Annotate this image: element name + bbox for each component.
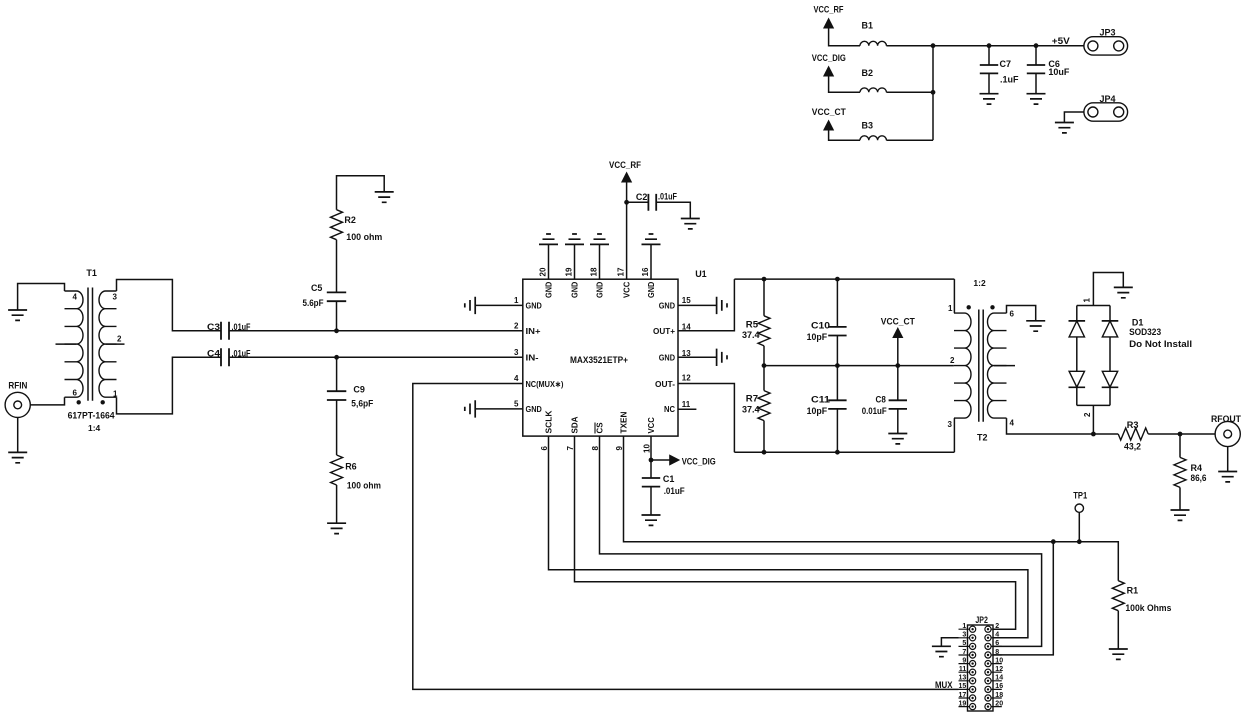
- capacitor C5: [327, 292, 346, 301]
- svg-text:1: 1: [514, 296, 519, 305]
- svg-text:18: 18: [590, 267, 599, 276]
- ground under R6: [327, 523, 346, 533]
- ground under RFOUT: [1218, 472, 1237, 482]
- connector JP4: [1084, 103, 1128, 121]
- testpoint TP1 circle: [1075, 504, 1083, 512]
- ground at R2: [375, 192, 394, 202]
- svg-text:T2: T2: [977, 433, 988, 443]
- wire R5 top lead: [763, 279, 765, 316]
- wire T2 pin 3 to bottom rail: [953, 418, 955, 452]
- wire R4 to ground: [1179, 487, 1181, 510]
- svg-text:6: 6: [73, 389, 78, 398]
- pin 7 wire SDA to JP2 pin 2: [575, 436, 1016, 629]
- pin 8 wire CS to JP2 pin 6: [600, 436, 1042, 646]
- svg-text:GND: GND: [570, 282, 580, 298]
- transformer T1 secondary winding: [99, 291, 117, 397]
- svg-text:IN+: IN+: [526, 326, 541, 336]
- phase dot T1 left: [77, 400, 81, 404]
- ground at C2: [681, 219, 700, 229]
- svg-text:2: 2: [995, 623, 999, 630]
- pin 1 wire GND of U1: [475, 304, 523, 306]
- inverted ground pin 19: [565, 234, 584, 244]
- svg-text:3: 3: [514, 348, 519, 357]
- svg-text:C5: C5: [311, 283, 322, 293]
- ground at U1 pin 15: [717, 297, 727, 314]
- wire C3 to U1 pin2: [229, 330, 523, 332]
- svg-text:617PT-1664: 617PT-1664: [68, 411, 115, 421]
- ground at T1 pin 4: [8, 310, 27, 320]
- wire D1 bottom rail: [1077, 404, 1110, 406]
- inductor B2: [860, 88, 886, 92]
- wire C10 bottom lead: [836, 336, 838, 366]
- svg-text:JP2: JP2: [975, 615, 988, 625]
- junction C5/C3 line: [334, 328, 339, 333]
- capacitor C10: [828, 327, 846, 336]
- svg-text:17: 17: [959, 692, 967, 699]
- wire JP4 to ground: [1064, 112, 1084, 123]
- svg-text:GND: GND: [595, 282, 605, 298]
- svg-text:T1: T1: [86, 268, 97, 278]
- svg-text:37.4: 37.4: [742, 330, 760, 340]
- svg-text:TP1: TP1: [1073, 491, 1087, 501]
- pin 19 wire GND top: [574, 244, 576, 279]
- diode D1 lower right: [1102, 371, 1117, 387]
- svg-text:SOD323: SOD323: [1129, 327, 1161, 337]
- svg-text:C3: C3: [207, 322, 220, 332]
- power arrow VCC_DIG at pin 10: [669, 454, 680, 465]
- diode D1 lower left: [1069, 371, 1084, 387]
- svg-text:10uF: 10uF: [1048, 67, 1070, 77]
- capacitor C4: [221, 348, 229, 366]
- wire T1 pin4 to ground: [18, 284, 65, 311]
- svg-text:20: 20: [995, 700, 1003, 707]
- svg-text:4: 4: [73, 293, 78, 302]
- svg-text:B2: B2: [862, 68, 874, 78]
- svg-text:16: 16: [995, 683, 1003, 690]
- wire bottom rail OUT-: [734, 451, 954, 453]
- pin 20 wire GND top: [548, 244, 550, 279]
- svg-text:MAX3521ETP+: MAX3521ETP+: [570, 355, 628, 365]
- svg-text:MUX: MUX: [935, 680, 953, 690]
- svg-text:12: 12: [682, 374, 691, 383]
- svg-text:Do Not Install: Do Not Install: [1129, 339, 1192, 349]
- svg-text:C4: C4: [207, 348, 220, 358]
- svg-text:VCC: VCC: [646, 417, 656, 433]
- svg-text:20: 20: [539, 267, 548, 276]
- phase dot T1 right: [101, 400, 105, 404]
- wire RFOUT to ground: [1227, 447, 1229, 472]
- svg-text:86,6: 86,6: [1191, 473, 1207, 483]
- ground at U1 pin 5: [465, 400, 475, 417]
- junction C10/C11 middle: [835, 363, 840, 368]
- pin 12 wire OUT- of U1 to matching network: [678, 384, 734, 453]
- svg-text:.01uF: .01uF: [664, 486, 685, 496]
- wire R7 bottom lead: [763, 421, 765, 453]
- ground under RFIN: [8, 452, 27, 462]
- svg-text:VCC_CT: VCC_CT: [812, 107, 846, 117]
- svg-text:3: 3: [113, 293, 118, 302]
- wire C11 top lead: [836, 366, 838, 401]
- junction C6 on +5V rail: [1034, 43, 1039, 48]
- svg-text:1:2: 1:2: [973, 278, 986, 288]
- transformer T1 primary center tap stub: [56, 343, 77, 345]
- junction TP1: [1077, 539, 1082, 544]
- svg-text:100 ohm: 100 ohm: [347, 481, 381, 491]
- wire top rail to T2 pin 1: [953, 279, 955, 313]
- resistor R5: [758, 316, 770, 346]
- svg-text:IN-: IN-: [526, 353, 539, 363]
- junction R7 bottom: [762, 450, 767, 455]
- svg-text:R4: R4: [1191, 463, 1203, 473]
- inverted ground pin 16: [642, 234, 661, 244]
- svg-text:8: 8: [995, 649, 999, 656]
- wire top rail OUT+: [734, 278, 954, 280]
- svg-text:C10: C10: [811, 320, 830, 330]
- svg-text:6: 6: [1010, 310, 1015, 319]
- ground under R1: [1109, 649, 1128, 659]
- junction R4: [1178, 432, 1183, 437]
- junction C8/VCC_CT middle: [895, 363, 900, 368]
- wire C2 to ground: [656, 202, 690, 218]
- wire C6 to rail: [1035, 46, 1037, 65]
- svg-text:2: 2: [514, 322, 519, 331]
- transformer T2 core: [979, 310, 983, 422]
- wire T1 pin3 to C3: [117, 280, 222, 331]
- svg-text:0.01uF: 0.01uF: [862, 406, 887, 416]
- wire RFIN to ground: [17, 418, 19, 453]
- wire R4 top lead: [1179, 434, 1181, 457]
- svg-text:5.6pF: 5.6pF: [303, 298, 324, 308]
- svg-text:VCC: VCC: [622, 282, 632, 298]
- wire TP1 to TXEN line: [1078, 512, 1080, 541]
- ground under C8: [888, 434, 907, 444]
- capacitor C6: [1027, 65, 1045, 73]
- svg-text:R2: R2: [344, 215, 356, 225]
- svg-text:B1: B1: [862, 21, 874, 31]
- pin 4 wire NC(MUX) of U1 to JP2 pin 15 MUX: [413, 384, 959, 690]
- svg-text:C11: C11: [811, 394, 830, 404]
- wire R7 top lead: [763, 366, 765, 391]
- svg-text:14: 14: [682, 323, 691, 332]
- svg-text:18: 18: [995, 692, 1003, 699]
- transformer T1 primary winding: [65, 291, 84, 397]
- resistor R4: [1174, 457, 1186, 487]
- wire C5 to junction: [336, 301, 338, 331]
- pin 15 wire GND of U1: [678, 304, 717, 306]
- pin 9 wire TXEN to JP2 pin 8 and R1: [624, 436, 1119, 581]
- svg-text:11: 11: [959, 666, 967, 673]
- svg-text:1: 1: [113, 390, 118, 399]
- pin 16 wire GND top: [650, 244, 652, 279]
- svg-text:RFOUT: RFOUT: [1211, 414, 1241, 424]
- transformer T1 pin 2 center tap: [106, 343, 125, 345]
- svg-text:6: 6: [995, 640, 999, 647]
- wire T1 pin1 to C4: [117, 357, 222, 414]
- svg-text:10: 10: [995, 657, 1003, 664]
- wire C9 junction to C9: [336, 357, 338, 391]
- svg-text:C7: C7: [1000, 59, 1012, 69]
- wire R6 to ground: [336, 485, 338, 523]
- svg-text:7: 7: [962, 649, 966, 656]
- svg-text:2: 2: [950, 356, 955, 365]
- svg-text:B3: B3: [862, 121, 874, 131]
- wire VCC_RF arrow to B1: [829, 29, 860, 46]
- svg-text:1: 1: [1083, 298, 1092, 303]
- svg-text:5,6pF: 5,6pF: [351, 398, 373, 408]
- wire junction to JP2 pin 8: [993, 542, 1053, 655]
- wire C8 to ground: [897, 409, 899, 434]
- wire B2 to junction: [886, 91, 933, 93]
- wire R1 to ground: [1117, 611, 1119, 649]
- wire R5 bottom lead: [763, 346, 765, 366]
- svg-text:8: 8: [591, 446, 600, 451]
- wire pin10 junction to C1: [650, 460, 652, 478]
- svg-text:OUT-: OUT-: [655, 379, 675, 389]
- wire D1 right middle: [1109, 337, 1111, 371]
- inductor B3: [860, 136, 886, 140]
- junction VCC_DIG at pin 10: [649, 458, 654, 463]
- wire D1 top to ground: [1093, 273, 1123, 306]
- wire junction to C2: [627, 201, 649, 203]
- wire D1 bottom to output line: [1092, 405, 1094, 434]
- svg-text:10: 10: [643, 444, 652, 453]
- wire C8 top lead: [897, 366, 899, 401]
- ground under C6: [1027, 94, 1046, 104]
- svg-text:1:4: 1:4: [88, 423, 101, 433]
- svg-text:100k Ohms: 100k Ohms: [1125, 603, 1171, 613]
- connector RFOUT inner: [1224, 430, 1232, 438]
- junction R5 bottom / R7 top: [762, 363, 767, 368]
- junction C10 top: [835, 277, 840, 282]
- svg-text:OUT+: OUT+: [653, 326, 675, 336]
- phase dot T2 left: [967, 305, 971, 309]
- power arrow VCC_DIG: [823, 66, 834, 77]
- wire R3 to RFOUT: [1148, 433, 1215, 435]
- wire junction to VCC_DIG arrow: [651, 459, 670, 461]
- transformer T2 secondary winding: [988, 313, 1007, 418]
- ground at U1 pin 1: [465, 297, 475, 314]
- svg-text:13: 13: [959, 675, 967, 682]
- svg-text:NC(MUX∗): NC(MUX∗): [526, 379, 564, 389]
- pin 5 wire GND of U1: [475, 408, 523, 410]
- svg-text:VCC_CT: VCC_CT: [881, 317, 915, 327]
- svg-text:R1: R1: [1127, 586, 1139, 596]
- svg-text:19: 19: [959, 700, 967, 707]
- power arrow VCC_CT at matching network: [892, 327, 903, 338]
- svg-text:9: 9: [962, 657, 966, 664]
- svg-text:TXEN: TXEN: [619, 412, 629, 434]
- wire C4 to U1 pin3: [229, 356, 523, 358]
- ground under C7: [980, 94, 999, 104]
- capacitor C3: [221, 322, 229, 340]
- power arrow VCC_RF: [823, 18, 834, 29]
- wire C9 to R6: [336, 400, 338, 455]
- svg-text:17: 17: [617, 267, 626, 276]
- svg-text:SDA: SDA: [570, 417, 580, 434]
- svg-text:4: 4: [995, 632, 999, 639]
- svg-text:14: 14: [995, 675, 1003, 682]
- wire C7 to ground: [988, 73, 990, 93]
- svg-text:12: 12: [995, 666, 1003, 673]
- svg-text:R3: R3: [1127, 420, 1139, 430]
- transformer T2 primary winding: [954, 313, 971, 418]
- inductor B1: [860, 41, 886, 45]
- wire C7 to rail: [988, 46, 990, 65]
- svg-text:SCLK: SCLK: [544, 410, 554, 434]
- svg-text:CS: CS: [595, 422, 605, 433]
- wire C6 to ground: [1035, 73, 1037, 93]
- junction D1 on output line: [1091, 432, 1096, 437]
- svg-text:RFIN: RFIN: [8, 380, 27, 390]
- svg-text:GND: GND: [526, 404, 542, 414]
- svg-text:.01uF: .01uF: [658, 191, 677, 201]
- junction C9/C4 line: [334, 355, 339, 360]
- ground under R4: [1171, 510, 1190, 520]
- svg-text:C1: C1: [663, 474, 675, 484]
- svg-text:15: 15: [959, 683, 967, 690]
- svg-text:C2: C2: [636, 192, 648, 202]
- svg-text:1: 1: [948, 304, 953, 313]
- diode D1 upper right: [1109, 306, 1111, 321]
- pin 6 wire SCLK to JP2 pin 4: [549, 436, 1028, 638]
- svg-text:9: 9: [615, 446, 624, 451]
- svg-text:6: 6: [540, 446, 549, 451]
- wire VCC_CT arrow to middle rail: [897, 338, 899, 366]
- wire C10 top lead: [836, 279, 838, 327]
- svg-text:C9: C9: [353, 385, 365, 395]
- svg-text:16: 16: [641, 267, 650, 276]
- wire RFIN to T1 pin 6: [30, 397, 64, 405]
- power arrow VCC_CT: [823, 120, 834, 131]
- phase dot T2 right: [990, 305, 994, 309]
- svg-text:7: 7: [566, 446, 575, 451]
- connector RFOUT outer: [1215, 421, 1240, 446]
- wire R2 to C5: [336, 240, 338, 293]
- ground at JP4: [1055, 123, 1074, 133]
- ground at JP2 pin 3: [932, 646, 951, 656]
- svg-text:VCC_RF: VCC_RF: [814, 5, 844, 15]
- svg-text:GND: GND: [526, 301, 542, 311]
- connector RFIN outer: [5, 392, 30, 417]
- svg-text:GND: GND: [659, 301, 675, 311]
- svg-text:43,2: 43,2: [1124, 442, 1141, 452]
- wire R2 top to ground: [337, 176, 385, 210]
- svg-text:R7: R7: [746, 393, 758, 403]
- svg-text:10pF: 10pF: [807, 406, 828, 416]
- transformer T1 core: [88, 288, 93, 401]
- svg-text:11: 11: [682, 400, 691, 409]
- capacitor C11: [828, 400, 846, 409]
- resistor R1: [1112, 581, 1124, 611]
- wire T2 pin 6 to ground: [1007, 306, 1036, 321]
- pin 18 wire GND top: [599, 244, 601, 279]
- ground at U1 pin 13: [717, 349, 727, 366]
- resistor R6: [331, 455, 343, 485]
- wire vertical joining B1 B2 B3: [932, 46, 934, 141]
- svg-text:NC: NC: [664, 404, 675, 414]
- wire VCC_CT arrow to B3: [829, 131, 860, 141]
- inverted ground pin 20: [539, 234, 558, 244]
- op-amp U1 body MAX3521ETP+: [523, 279, 678, 436]
- svg-text:100 ohm: 100 ohm: [346, 232, 382, 242]
- svg-text:5: 5: [514, 400, 519, 409]
- wire D1 top rail: [1077, 305, 1110, 307]
- connector JP2 pads and stubs: [959, 629, 1002, 706]
- svg-text:4: 4: [1010, 419, 1015, 428]
- wire C1 to ground: [650, 487, 652, 515]
- svg-text:3: 3: [962, 632, 966, 639]
- svg-text:3: 3: [948, 420, 953, 429]
- junction TXEN to JP2 pin 8: [1051, 539, 1056, 544]
- diode D1 upper left: [1076, 306, 1078, 321]
- svg-text:C8: C8: [876, 394, 886, 404]
- pin 11 stub NC: [678, 408, 696, 410]
- capacitor C9: [327, 391, 346, 400]
- resistor R7: [758, 391, 770, 421]
- svg-text:15: 15: [682, 296, 691, 305]
- ground at T2 pin 6: [1026, 321, 1045, 331]
- svg-text:5: 5: [962, 640, 966, 647]
- pin 13 wire GND of U1: [678, 356, 717, 358]
- svg-text:R5: R5: [746, 320, 758, 330]
- svg-text:+5V: +5V: [1052, 36, 1070, 46]
- pin 14 wire OUT+ of U1 to matching network: [678, 279, 734, 331]
- wire B3 to junction: [886, 139, 933, 141]
- svg-text:2: 2: [117, 335, 122, 344]
- ground under C1: [642, 515, 661, 525]
- svg-text:37.4: 37.4: [742, 405, 760, 415]
- power arrow VCC_RF above U1: [621, 172, 632, 183]
- connector RFIN inner: [14, 401, 22, 409]
- resistor R3: [1118, 428, 1148, 440]
- connector JP3: [1084, 37, 1128, 55]
- ground at D1 top: [1114, 287, 1133, 297]
- svg-text:GND: GND: [659, 353, 675, 363]
- wire B1 to +5V rail: [886, 45, 1084, 47]
- svg-text:2: 2: [1083, 412, 1092, 417]
- svg-text:10pF: 10pF: [807, 332, 828, 342]
- wire VCC_DIG arrow to B2: [829, 77, 860, 93]
- svg-text:U1: U1: [695, 269, 707, 279]
- wire C11 bottom lead: [836, 409, 838, 452]
- svg-text:GND: GND: [646, 282, 656, 298]
- junction B1/VCC vertical: [931, 43, 936, 48]
- junction C7 on +5V rail: [987, 43, 992, 48]
- junction B2: [931, 90, 936, 95]
- svg-text:13: 13: [682, 349, 691, 358]
- svg-text:VCC_DIG: VCC_DIG: [812, 53, 846, 63]
- resistor R2: [331, 210, 343, 240]
- capacitor C7: [980, 65, 998, 73]
- svg-text:1: 1: [962, 623, 966, 630]
- capacitor C8: [889, 400, 907, 409]
- wire VCC_RF to U1 pin17: [626, 183, 628, 280]
- connector JP2 body: [968, 625, 994, 711]
- junction C11 bottom: [835, 450, 840, 455]
- junction R5 top: [762, 277, 767, 282]
- transformer T2 secondary center tap stub: [994, 365, 1015, 367]
- wire D1 left middle: [1076, 337, 1078, 371]
- pin 10 wire VCC bottom: [650, 436, 652, 460]
- capacitor C1: [642, 478, 660, 487]
- svg-text:VCC_RF: VCC_RF: [609, 160, 641, 170]
- svg-text:4: 4: [514, 374, 519, 383]
- inverted ground pin 18: [590, 234, 609, 244]
- wire middle rail to T2 center tap: [764, 365, 954, 367]
- wire T2 pin 4 to output line: [1007, 418, 1119, 434]
- svg-text:R6: R6: [345, 462, 357, 472]
- svg-text:GND: GND: [544, 282, 554, 298]
